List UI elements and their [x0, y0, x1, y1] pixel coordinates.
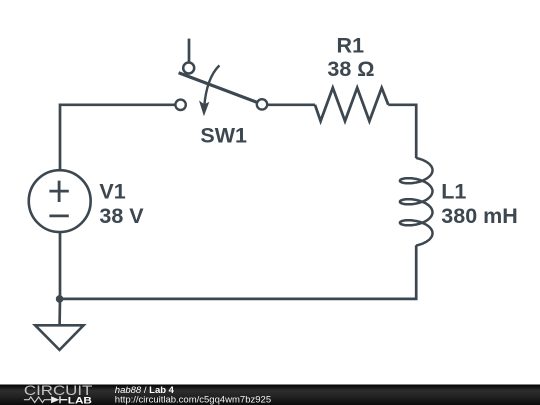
ground symbol triangle [35, 325, 84, 350]
V1 plus sign [49, 181, 68, 202]
V1 minus sign [49, 214, 68, 217]
wire inductor bottom to bottom-right corner and along bottom to junction [60, 245, 417, 299]
switch SW1 top terminal circle [183, 63, 194, 74]
junction node dot [56, 295, 64, 303]
switch SW1 top stub [188, 39, 191, 63]
svg-text:38 V: 38 V [99, 204, 144, 228]
voltage source V1 circle [29, 170, 91, 232]
resistor R1 [315, 88, 388, 121]
svg-text:380 mH: 380 mH [441, 204, 518, 228]
switch SW1 right terminal circle [257, 99, 267, 109]
svg-text:http://circuitlab.com/c5gq4wm7: http://circuitlab.com/c5gq4wm7bz925 [115, 394, 271, 405]
svg-text:R1: R1 [337, 33, 365, 57]
svg-text:L1: L1 [441, 180, 466, 204]
switch SW1 left terminal circle [175, 100, 185, 110]
svg-text:LAB: LAB [68, 396, 92, 405]
CircuitLab logo diode [51, 396, 59, 403]
wire switch right terminal to resistor [267, 103, 315, 106]
svg-text:SW1: SW1 [200, 124, 247, 148]
wire V1 bottom to junction to ground [58, 232, 61, 325]
wire resistor to top-right corner down to inductor [388, 105, 416, 158]
svg-text:V1: V1 [99, 180, 125, 204]
switch SW1 blade [179, 73, 257, 102]
svg-text:38 Ω: 38 Ω [327, 57, 374, 81]
CircuitLab logo waveform wire [24, 397, 51, 403]
switch SW1 arrowhead [199, 101, 209, 117]
inductor L1 coil [400, 158, 433, 246]
switch SW1 actuation arc [204, 65, 219, 107]
wire top-left: V1 top to switch left terminal [60, 105, 175, 169]
